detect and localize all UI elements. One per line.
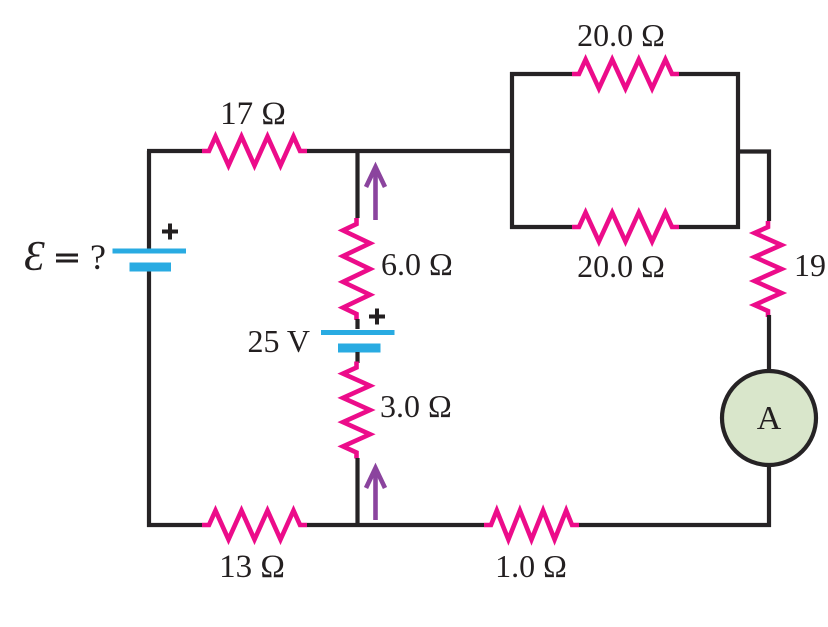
wire: bottom rail — [147, 523, 771, 527]
battery 25V long plate — [321, 330, 395, 335]
battery 25V plus sign — [369, 309, 385, 325]
resistor 6.0 ohm — [343, 218, 370, 320]
svg-text:6.0 Ω: 6.0 Ω — [381, 246, 453, 282]
svg-text:1.0 Ω: 1.0 Ω — [495, 548, 567, 584]
parallel box: right side wire — [736, 72, 740, 229]
svg-text:Ɛ: Ɛ — [24, 234, 45, 280]
resistor 13 ohm — [202, 511, 307, 540]
wire: jog from box to right branch — [738, 152, 769, 222]
svg-text:?: ? — [90, 237, 106, 277]
svg-text:13 Ω: 13 Ω — [219, 549, 285, 585]
wire: stub below 25V battery — [355, 352, 359, 363]
svg-text:25 V: 25 V — [247, 323, 310, 359]
battery EMF (left, unknown) plus sign — [162, 224, 178, 240]
parallel box: bottom wire — [510, 225, 740, 229]
wire: left branch top segment — [147, 151, 151, 249]
svg-text:19: 19 — [794, 247, 826, 283]
wire: left branch bottom segment — [147, 272, 151, 528]
resistor 20.0 ohm (bottom) — [572, 213, 679, 242]
wire: right branch above ammeter — [767, 315, 771, 372]
parallel box: top wire — [510, 72, 740, 76]
battery EMF short plate — [130, 263, 172, 272]
arrowhead I1 — [366, 167, 385, 187]
svg-text:3.0 Ω: 3.0 Ω — [380, 388, 452, 424]
svg-text:A: A — [757, 400, 782, 437]
resistor R 17ohm — [202, 137, 307, 166]
battery 25V short plate — [338, 344, 381, 353]
parallel box: left side wire — [510, 72, 514, 229]
wire: right branch below ammeter — [767, 465, 771, 527]
wire: top-left horizontal (battery to box) — [147, 149, 512, 153]
ammeter A — [722, 371, 816, 465]
svg-text:20.0 Ω: 20.0 Ω — [577, 17, 665, 53]
resistor 20.0 ohm (top) — [572, 60, 679, 89]
current arrow I2 (up, bottom of middle branch) — [373, 471, 378, 520]
resistor 1.0 ohm — [484, 511, 579, 540]
resistor 19 ohm — [755, 221, 782, 317]
wire: middle branch bottom segment — [355, 458, 359, 527]
battery EMF long plate — [113, 249, 187, 254]
resistor 3.0 ohm — [343, 362, 370, 459]
wire: middle branch top stub — [355, 149, 359, 218]
current arrow I1 (up, top of middle branch) — [373, 170, 378, 220]
svg-text:20.0 Ω: 20.0 Ω — [577, 248, 665, 284]
svg-text:17 Ω: 17 Ω — [220, 96, 286, 132]
arrowhead I2 — [366, 468, 385, 488]
wire: stub above 25V battery — [355, 319, 359, 329]
